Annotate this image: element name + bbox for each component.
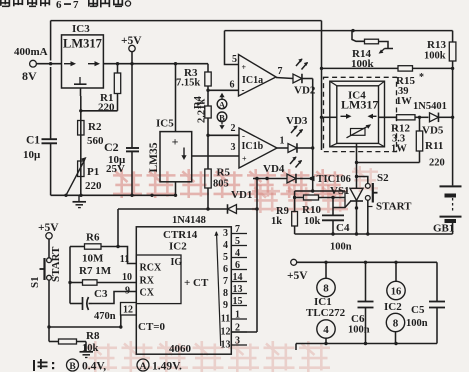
LED VD2: [293, 74, 302, 83]
resistor R2 560: [78, 121, 84, 136]
op-amp IC1a: [239, 55, 277, 97]
heater IC4 inner box: [337, 86, 379, 144]
svg-text:VD5: VD5: [422, 125, 444, 137]
node input/C1/8V-rail: [49, 62, 52, 65]
wire riser to R6/pin11: [117, 209, 119, 247]
svg-text:IC1a: IC1a: [242, 75, 263, 86]
wire bus to IC4 in: [322, 116, 337, 118]
svg-text:9: 9: [223, 300, 228, 311]
svg-text:R10: R10: [302, 204, 321, 216]
IG oscillator box: [136, 255, 181, 304]
capacitor C6: [365, 262, 367, 301]
+5V terminal: [129, 45, 135, 51]
svg-text:10: 10: [122, 272, 132, 283]
wire adj riser: [80, 96, 82, 195]
svg-text:5: 5: [235, 236, 240, 247]
svg-text:C6: C6: [351, 313, 365, 325]
svg-text:6: 6: [223, 264, 228, 275]
capacitor C2 10u 25V: [131, 64, 133, 148]
svg-text:CTR14: CTR14: [163, 229, 198, 241]
resistor R4 2.21k: [205, 106, 211, 118]
IC4 adjust element: [351, 129, 366, 136]
svg-text:5: 5: [223, 252, 228, 263]
svg-text:10M: 10M: [82, 253, 104, 265]
wire 8V top rail: [51, 20, 322, 22]
svg-text:470n: 470n: [94, 311, 116, 322]
svg-text:10k: 10k: [304, 216, 321, 227]
resistor R3 7.15k: [207, 64, 209, 72]
svg-text:R2: R2: [88, 121, 102, 133]
svg-text:1: 1: [235, 310, 240, 321]
wire gate line: [295, 190, 345, 192]
svg-text:2.21k: 2.21k: [197, 99, 208, 123]
svg-text:R7 1M: R7 1M: [79, 265, 112, 277]
svg-text:12: 12: [123, 305, 133, 316]
ground R8: [85, 342, 87, 352]
svg-text:4: 4: [235, 248, 240, 259]
svg-text:6: 6: [230, 80, 235, 91]
wire VD2 to chain: [302, 78, 313, 80]
watermark band bottom: [86, 341, 117, 372]
svg-text:1: 1: [280, 136, 285, 147]
svg-text:S2: S2: [377, 172, 389, 184]
wire input to IC3: [36, 63, 61, 65]
svg-text:RX: RX: [140, 276, 155, 287]
switch S1: [47, 258, 52, 263]
sensor IC5 LM35 box: [160, 132, 192, 182]
wire ground rail left: [51, 194, 176, 196]
thyristor VS1 TIC106: [350, 188, 363, 200]
wire 8V bus right: [321, 21, 323, 150]
svg-text:-: -: [242, 85, 245, 95]
svg-text:100k: 100k: [424, 51, 446, 62]
LED VD3: [288, 144, 297, 153]
wire +5V to LM35: [175, 64, 177, 132]
LED VD4: [287, 174, 296, 183]
R9 stem: [294, 191, 296, 212]
resistor R12 3.3 1W: [397, 115, 416, 120]
IC3 output arrow: [88, 63, 96, 65]
svg-text:B: B: [219, 112, 225, 122]
note line: [33, 359, 54, 371]
svg-text:13: 13: [221, 340, 231, 351]
wire VD3 to chain: [298, 147, 313, 149]
VS1 gate: [333, 201, 351, 208]
pin 12 box: [121, 303, 137, 316]
wire VD4 anode lead: [253, 178, 287, 180]
svg-text:+: +: [172, 135, 179, 149]
svg-text:4: 4: [323, 324, 329, 336]
svg-text:VD3: VD3: [286, 115, 308, 127]
resistor R8 10k: [48, 327, 50, 342]
wire threshold line to R14/R13: [225, 30, 453, 32]
svg-text:1N4148: 1N4148: [172, 215, 206, 226]
resistor R11 220: [419, 117, 421, 131]
svg-text:B: B: [69, 362, 76, 372]
svg-text:560: 560: [87, 135, 104, 147]
wire R1 to adj: [81, 110, 118, 112]
svg-text:5: 5: [232, 54, 237, 65]
node B marker: [217, 112, 227, 122]
IC3 input arrow: [64, 63, 72, 65]
svg-text:1N5401: 1N5401: [413, 101, 447, 112]
svg-text:7: 7: [235, 224, 240, 235]
IC2 supply pins: [395, 262, 397, 281]
svg-text:1W: 1W: [391, 144, 407, 155]
TIC106 pointer: [308, 176, 315, 181]
svg-text:6: 6: [235, 260, 240, 271]
svg-text:13: 13: [233, 284, 243, 295]
battery GB1: [440, 185, 462, 187]
svg-text:3: 3: [231, 142, 236, 153]
diode VD5: [430, 113, 439, 122]
wire VD4 to chain: [296, 178, 313, 180]
output selector slant: [217, 232, 221, 346]
svg-text:C5: C5: [411, 304, 425, 316]
svg-text:TLC272: TLC272: [306, 307, 346, 319]
wire LM35 gnd stub: [175, 182, 177, 196]
svg-text:C1: C1: [26, 135, 40, 147]
capacitor C5: [436, 262, 438, 301]
wire IC3 out to R3: [103, 63, 208, 65]
wire LM35 out to IC1b pin3: [192, 155, 239, 157]
svg-text:15: 15: [233, 296, 243, 307]
svg-text:VD1: VD1: [231, 189, 252, 201]
svg-text:8: 8: [223, 288, 228, 299]
svg-text:-: -: [242, 131, 245, 141]
trimmer R14 100k: [352, 31, 365, 42]
svg-text:A: A: [219, 100, 226, 110]
resistor R15 39 1W: [322, 67, 399, 69]
svg-text:C4: C4: [336, 222, 350, 234]
wire +5V stem: [131, 52, 133, 64]
svg-text:1k: 1k: [271, 216, 282, 227]
resistor R1 220: [117, 64, 119, 73]
ground symbol: [78, 195, 80, 201]
svg-text:8: 8: [393, 318, 399, 330]
wire R4-R5 riser: [207, 118, 209, 169]
svg-text:220: 220: [429, 158, 445, 169]
svg-text:START: START: [50, 246, 62, 282]
wire RC common bus: [69, 247, 71, 304]
svg-text:TIC106: TIC106: [317, 174, 351, 185]
heater IC4 outer box: [330, 81, 385, 147]
wire R11 return to VS1 anode: [357, 162, 420, 164]
svg-text:12: 12: [221, 327, 231, 338]
watermark band middle: [113, 169, 142, 198]
svg-text:IC2: IC2: [169, 241, 187, 253]
clipped heading text fragments: [0, 0, 10, 7]
svg-text:VD4: VD4: [263, 163, 285, 175]
IC4 arrows: [341, 115, 348, 117]
IC4 corner ties: [330, 81, 337, 86]
svg-text:3: 3: [223, 228, 228, 239]
terminal +5V S1: [46, 233, 52, 239]
svg-text:CT=0: CT=0: [138, 321, 166, 333]
svg-text:805: 805: [213, 179, 229, 190]
svg-text:START: START: [376, 201, 412, 213]
svg-text:14: 14: [233, 272, 243, 283]
wire to VD5: [420, 116, 429, 118]
LM35 down arrow: [183, 148, 185, 157]
svg-text:1.49V.: 1.49V.: [152, 361, 182, 372]
IC3 adj symbol: [79, 77, 81, 84]
svg-text:R6: R6: [86, 232, 100, 244]
svg-text:8V: 8V: [22, 69, 37, 83]
terminal +5V sub: [291, 259, 297, 265]
wire IC4 out: [379, 116, 397, 118]
op-amp IC1b: [239, 128, 277, 168]
svg-text:7: 7: [223, 276, 228, 287]
watermark band middle-right offset row: [252, 185, 280, 213]
svg-text:IC3: IC3: [72, 23, 90, 35]
wire riser VD4/IC2-out: [256, 179, 258, 333]
svg-text:CX: CX: [140, 288, 155, 299]
svg-text:+: +: [242, 63, 247, 72]
regulator IC3 box: [62, 35, 104, 88]
svg-text:RCX: RCX: [140, 263, 162, 274]
svg-text:10μ: 10μ: [23, 149, 41, 161]
svg-text:R13: R13: [427, 39, 446, 51]
potentiometer P1 220: [78, 161, 84, 177]
svg-text:IC2: IC2: [384, 301, 402, 313]
wire to S1: [48, 239, 50, 258]
wire IC1b out: [277, 147, 288, 149]
svg-text:100n: 100n: [406, 318, 428, 329]
counter IC2 4060 box: [136, 227, 231, 354]
svg-text:R5: R5: [217, 167, 231, 179]
svg-text:C3: C3: [94, 288, 108, 300]
wire pin12 to S1 node: [49, 315, 121, 327]
svg-text:16: 16: [391, 287, 402, 298]
svg-text:+: +: [242, 155, 247, 164]
wire input node down to C1: [50, 67, 52, 139]
wire to battery: [452, 117, 454, 185]
wire bottom right rail: [295, 233, 453, 235]
svg-text:220: 220: [85, 180, 102, 192]
svg-text:S1: S1: [29, 276, 41, 288]
svg-text:7: 7: [73, 0, 79, 11]
switch S2: [357, 177, 368, 184]
svg-text:4: 4: [223, 240, 228, 251]
svg-text:*: *: [419, 72, 424, 83]
svg-text:IG: IG: [171, 257, 183, 268]
svg-text:+ CT: + CT: [184, 277, 209, 289]
wire to IC1a pin6: [208, 89, 239, 91]
svg-text:6: 6: [56, 0, 62, 11]
wire S1 to node: [48, 280, 50, 327]
svg-text:0.4V,: 0.4V,: [82, 361, 106, 372]
wire IC3 adj stem: [80, 88, 82, 96]
resistor R5 805: [205, 169, 211, 188]
wire up to 8V top rail: [50, 21, 52, 61]
node A marker: [217, 99, 227, 109]
svg-text:LM317: LM317: [341, 98, 378, 112]
wire IC1a out: [276, 78, 293, 79]
wire VD1 cathode line: [118, 208, 228, 210]
svg-text:A: A: [140, 362, 147, 372]
svg-text:100n: 100n: [330, 242, 352, 253]
svg-text:P1: P1: [87, 166, 99, 178]
svg-text:R8: R8: [86, 330, 100, 342]
wire IC4 adj to VS1: [356, 143, 358, 188]
sub ground rail: [296, 343, 437, 345]
input terminal: [30, 60, 37, 67]
P1 wiper: [66, 162, 84, 196]
svg-text:R11: R11: [425, 140, 443, 152]
svg-text:8: 8: [323, 283, 329, 295]
wire VD1 anode: [237, 208, 258, 210]
IC1 supply pins: [325, 262, 327, 278]
wire pin5 from threshold line: [225, 31, 239, 65]
svg-text:2: 2: [231, 123, 236, 134]
wire sub rail: [297, 261, 437, 263]
svg-text:7: 7: [278, 66, 283, 77]
svg-text:C2: C2: [104, 140, 119, 154]
wire IC2 output pin2 to riser: [231, 331, 257, 333]
resistor R9 1k: [292, 212, 298, 227]
svg-text:400mA: 400mA: [14, 46, 48, 58]
resistor R13 100k: [452, 31, 454, 42]
svg-text:IC1b: IC1b: [242, 141, 264, 152]
svg-text:LM35: LM35: [148, 142, 160, 172]
svg-text:100n: 100n: [348, 325, 370, 336]
diode VD1 1N4148: [228, 205, 237, 214]
svg-text:1W: 1W: [396, 96, 412, 107]
svg-text:LM317: LM317: [63, 37, 102, 51]
svg-text:IC5: IC5: [156, 118, 174, 130]
wire LED cathode chain: [312, 79, 314, 192]
capacitor C1: [42, 138, 58, 140]
svg-text:3: 3: [235, 336, 240, 347]
svg-text:25V: 25V: [106, 163, 125, 175]
capacitor C4 100n: [332, 198, 334, 215]
svg-text:7.15k: 7.15k: [176, 78, 200, 89]
dashed thermal box: [324, 77, 397, 151]
wire to IC1b pin2: [208, 134, 239, 136]
svg-text:GB1: GB1: [433, 223, 454, 235]
svg-text:4060: 4060: [169, 343, 192, 355]
svg-text:+5V: +5V: [287, 270, 308, 282]
svg-text:11: 11: [221, 314, 230, 325]
resistor R10 10k: [295, 197, 304, 199]
